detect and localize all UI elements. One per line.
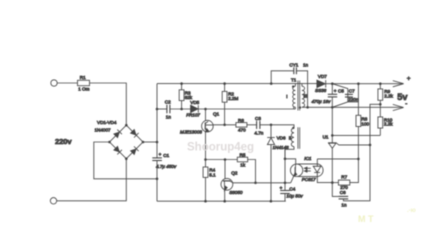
- diode VD2 (bottom-right edge): [130, 146, 139, 155]
- junction: CY1 branch on top rail: [270, 82, 273, 85]
- svg-text:U1: U1: [323, 135, 329, 140]
- svg-text:5v: 5v: [397, 92, 408, 102]
- wire: bridge minus around to ground column: [94, 142, 157, 179]
- wire: AC top terminal to R1: [57, 82, 77, 84]
- optocoupler IC1: [285, 156, 332, 183]
- junction: ref/C6 node: [369, 144, 372, 147]
- wire: ref column down to C6 bottom: [343, 145, 370, 201]
- junction: C5 on +5V rail: [331, 82, 334, 85]
- svg-text:М Т: М Т: [358, 214, 374, 224]
- junction: U1 column top: [331, 134, 334, 137]
- svg-text:PC817: PC817: [302, 177, 316, 182]
- svg-text:VD5: VD5: [190, 100, 199, 105]
- junction: VD6 on ground rail: [270, 200, 273, 203]
- svg-text:+: +: [407, 76, 411, 83]
- wire: minus output rail: [302, 106, 403, 108]
- svg-text:C1: C1: [163, 153, 169, 158]
- wire: +DC top rail: [157, 83, 317, 85]
- junction: R4 on ground rail: [204, 200, 207, 203]
- capacitor C4: [280, 186, 304, 202]
- opto transistor internals: [294, 167, 296, 173]
- junction: Q2 base on R5 line: [224, 158, 227, 161]
- svg-text:CY1: CY1: [289, 63, 298, 68]
- resistor R1: [78, 75, 90, 91]
- svg-text:III: III: [303, 94, 307, 99]
- svg-text:1n: 1n: [341, 202, 347, 207]
- diode VD6: [267, 125, 289, 201]
- arrow: minus output: [393, 104, 404, 110]
- capacitor C2: [165, 100, 172, 120]
- junction: R3 on top rail: [180, 82, 183, 85]
- junction: opto collector on aux column: [284, 158, 287, 161]
- wire: bridge plus to C1 column: [143, 141, 157, 143]
- winding III (secondary): [301, 84, 303, 87]
- svg-text:220v: 220v: [55, 137, 72, 146]
- junction: R2 on top rail: [223, 82, 226, 85]
- svg-text:270: 270: [340, 185, 348, 190]
- junction: Q1 collector on clamp line: [204, 108, 207, 111]
- svg-text:I: I: [286, 94, 287, 99]
- junction: bridge minus on C1 column: [156, 178, 159, 181]
- svg-text:-: -: [405, 101, 407, 107]
- svg-text:II: II: [289, 136, 292, 141]
- svg-text:1 Om: 1 Om: [78, 87, 89, 92]
- capacitor CY1: [271, 63, 308, 108]
- svg-text:C7: C7: [349, 88, 355, 93]
- svg-text:+: +: [159, 152, 162, 157]
- svg-text:+: +: [334, 89, 337, 94]
- resistor R5: [206, 153, 256, 183]
- svg-text:IC1: IC1: [304, 156, 312, 161]
- svg-text:1n: 1n: [166, 115, 172, 120]
- LED anode pin: [316, 159, 318, 166]
- junction: R8 on +5V rail: [357, 82, 360, 85]
- junction: C4 column on collector line: [284, 182, 287, 185]
- resistor R7: [332, 159, 358, 190]
- junction: R2 bottom on base line: [223, 124, 226, 127]
- svg-text:2.2k: 2.2k: [384, 93, 393, 98]
- opto emitter pin: [291, 176, 294, 183]
- transformer T1: [285, 78, 307, 159]
- svg-text:T1: T1: [291, 78, 297, 83]
- resistor R9: [378, 84, 394, 117]
- capacitor C6: [332, 183, 348, 208]
- wire: clamp line from C1 column to transformer primary bottom: [157, 107, 294, 109]
- junction: CY1 on minus rail: [306, 106, 309, 109]
- wire: primary ground rail: [157, 200, 286, 202]
- svg-text:100: 100: [361, 121, 369, 126]
- wire: winding II bottom to aux column: [285, 147, 294, 159]
- junction: C5/U1 column on minus rail: [331, 106, 334, 109]
- core: [297, 81, 299, 111]
- svg-text:2.2k: 2.2k: [384, 122, 393, 127]
- capacitor C5: [312, 84, 345, 108]
- LED diode: [313, 165, 322, 167]
- wire: Q2 collector line to optocoupler emitter: [233, 182, 291, 184]
- winding II (aux): [291, 128, 294, 146]
- junction: Q2 emitter on ground rail: [223, 200, 226, 203]
- junction: ref node on divider: [379, 103, 382, 106]
- junction: R3 bottom on clamp line: [180, 108, 183, 111]
- wire: aux column (winding II to C4): [284, 149, 286, 190]
- svg-text:R7: R7: [341, 175, 347, 180]
- junction: R5 left on Q1 emitter: [204, 158, 207, 161]
- wire: LED anode line: [317, 158, 358, 160]
- svg-text:R1: R1: [80, 75, 86, 80]
- diode VD5: [186, 100, 200, 117]
- opto collector pin: [285, 159, 296, 165]
- capacitor C7: [345, 88, 359, 102]
- LED cathode pin: [317, 173, 332, 183]
- svg-text:220n: 220n: [348, 97, 359, 102]
- svg-text:4.7n: 4.7n: [254, 130, 263, 135]
- svg-text:Q1: Q1: [213, 111, 220, 116]
- junction: clamp line on C1 column: [156, 108, 159, 111]
- resistor R6: [236, 118, 257, 132]
- svg-text:Q2: Q2: [231, 171, 238, 176]
- junction: bridge right corner: [142, 141, 145, 144]
- junction: R8 bottom / LED anode node: [357, 158, 360, 161]
- svg-text:C6: C6: [340, 190, 346, 195]
- diode VD4 (bottom-left edge): [113, 146, 122, 155]
- svg-text:1k: 1k: [240, 163, 246, 168]
- svg-text:82k: 82k: [185, 95, 193, 100]
- wire: U1 ref to divider: [337, 104, 381, 145]
- junction: bridge top corner: [125, 124, 128, 127]
- wire: Q1 base line: [213, 124, 236, 126]
- resistor R10: [378, 117, 393, 135]
- wire: R10 bottom to U1 column: [332, 134, 380, 136]
- shunt regulator U1 (TL431): [323, 107, 337, 182]
- bridge rectifier VD1-VD4: [95, 120, 145, 160]
- resistor R2: [222, 84, 238, 125]
- phase dot winding I: [292, 85, 294, 87]
- svg-text:5.1: 5.1: [209, 172, 216, 177]
- diode VD3 (top-left edge): [113, 130, 122, 139]
- svg-text:C4: C4: [289, 186, 295, 191]
- svg-text:+: +: [280, 186, 283, 191]
- junction: bridge left corner: [108, 141, 111, 144]
- diode VD1 (top-right edge): [130, 129, 139, 138]
- junction: VD6 top on C3 line: [270, 124, 273, 127]
- svg-text:Shoorup4eg: Shoorup4eg: [187, 142, 254, 154]
- capacitor C3: [254, 116, 263, 135]
- wire: +5V output rail: [326, 83, 403, 85]
- terminal: AC input top: [51, 80, 57, 86]
- wire: AC bottom terminal to bridge bottom corner: [57, 159, 127, 201]
- svg-text:VD1-VD4: VD1-VD4: [97, 120, 117, 125]
- phase dot winding III: [299, 106, 301, 108]
- transistor Q1: [180, 109, 220, 167]
- junction: bridge plus on C1 column: [156, 141, 159, 144]
- svg-text:SS36: SS36: [315, 88, 327, 93]
- svg-text:VD7: VD7: [318, 74, 327, 79]
- resistor R8: [356, 84, 370, 159]
- svg-text:470: 470: [238, 127, 246, 132]
- svg-text:MJE13003: MJE13003: [180, 130, 202, 135]
- svg-text:C3: C3: [255, 116, 261, 121]
- wire: R1 to bridge top corner: [90, 83, 127, 125]
- svg-text:4.7μ 450v: 4.7μ 450v: [156, 164, 177, 169]
- svg-text:10μ 50v: 10μ 50v: [286, 193, 303, 198]
- svg-text:C5: C5: [338, 89, 344, 94]
- junction: R5 right on Q2 collector line: [254, 182, 257, 185]
- svg-text:S8050: S8050: [229, 190, 243, 195]
- wire: C3 to aux winding II top: [260, 125, 294, 128]
- junction: R9 on +5V rail: [379, 82, 382, 85]
- junction: U1 anode / R7 / LED cathode node: [331, 181, 334, 184]
- svg-text:1n: 1n: [303, 63, 309, 68]
- LED arrows: [305, 167, 311, 169]
- drawn triangle shape between C5 and C7 (as in scan): [332, 84, 348, 108]
- terminal: AC input bottom: [50, 198, 56, 204]
- svg-text:R6: R6: [238, 118, 244, 123]
- junction: bridge bottom corner: [125, 157, 128, 160]
- capacitor C1: [152, 84, 177, 202]
- svg-text:470μ 16v: 470μ 16v: [312, 99, 332, 104]
- svg-text:C2: C2: [165, 100, 171, 105]
- diode VD7: [315, 74, 327, 93]
- resistor R3: [179, 84, 193, 109]
- resistor R4: [203, 167, 216, 201]
- transistor Q2: [221, 160, 243, 202]
- svg-text:.-ю: .-ю: [407, 208, 416, 214]
- aux core: [297, 127, 299, 149]
- phase dot winding II: [292, 127, 294, 129]
- svg-text:VD6: VD6: [277, 136, 286, 141]
- arrow: +5V output: [393, 81, 404, 87]
- svg-text:1N4007: 1N4007: [95, 128, 112, 133]
- svg-text:2.2M: 2.2M: [228, 96, 238, 101]
- winding I (primary): [294, 84, 296, 87]
- svg-text:FR107: FR107: [186, 113, 200, 118]
